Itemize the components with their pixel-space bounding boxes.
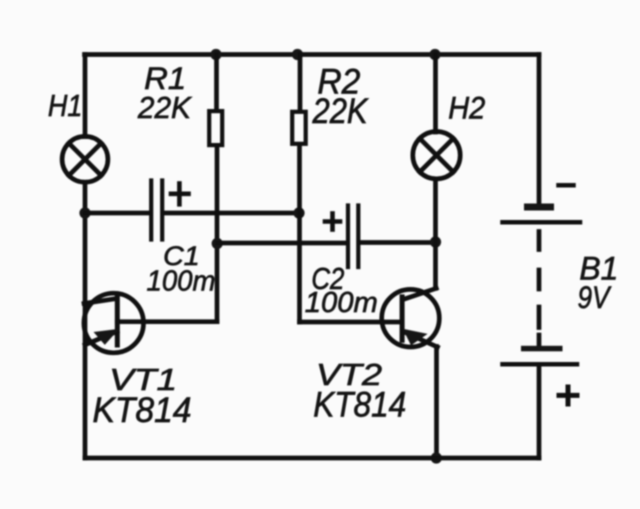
wire C1 right lead to R2 branch: [165, 211, 300, 216]
battery B1 bottom cell positive plate: [503, 362, 578, 367]
wire bottom rail: [85, 456, 539, 461]
battery dashed link: [537, 232, 542, 347]
wire R2 bottom lead down to VT2 base corner: [297, 146, 302, 323]
wire VT1 base lead: [117, 319, 217, 324]
minus sign: [559, 183, 574, 188]
resistor R1: [209, 111, 222, 145]
wire C2 right lead: [361, 240, 436, 245]
svg-text:H2: H2: [448, 89, 485, 125]
wire VT2 emitter rail to bottom: [434, 347, 439, 459]
svg-text:KT814: KT814: [93, 391, 192, 430]
wire battery bottom lead: [537, 366, 542, 458]
lamp H2: [413, 132, 460, 179]
wire R1 top lead: [214, 55, 219, 111]
transistor VT2: [382, 288, 440, 347]
capacitor C2: [348, 206, 358, 268]
lamp H1: [62, 136, 108, 182]
svg-text:22K: 22K: [137, 90, 192, 125]
capacitor C1: [151, 181, 162, 240]
battery B1 top cell negative plate: [524, 204, 554, 211]
transistor VT1: [84, 293, 144, 353]
svg-text:100m: 100m: [147, 265, 216, 297]
node dot top rail R2: [292, 49, 303, 60]
node dot H1/C1: [79, 207, 90, 218]
battery B1 top cell positive plate: [503, 220, 581, 225]
battery B1 bottom cell negative plate: [521, 346, 563, 352]
wire H2 top lead: [433, 55, 438, 133]
plus sign: [559, 387, 577, 404]
wire R1 bottom lead down to VT1 base corner: [215, 147, 220, 322]
svg-text:KT814: KT814: [313, 385, 406, 425]
node dot top rail R1: [210, 49, 221, 60]
wire left rail (H1 to bottom rail): [83, 182, 88, 458]
node dot R1/C2: [212, 238, 223, 249]
svg-text:22K: 22K: [312, 92, 369, 131]
node dot H2/C2: [430, 236, 441, 247]
wire H2 bottom lead to VT2 collector joint: [433, 179, 438, 288]
polarity plus of C2: [325, 214, 340, 230]
polarity plus of C1: [171, 184, 189, 205]
wire VT2 base lead: [300, 320, 403, 325]
node dot bottom rail: [431, 452, 442, 463]
svg-text:100m: 100m: [305, 287, 378, 319]
node dot top rail H2: [429, 49, 440, 60]
wire C1 left lead: [85, 211, 149, 216]
svg-text:H1: H1: [48, 89, 83, 123]
wire R2 top lead: [298, 55, 303, 111]
svg-text:9V: 9V: [578, 279, 612, 315]
wire battery top lead: [537, 55, 542, 205]
wire left rail upper (top rail to H1): [83, 55, 88, 137]
wire top rail: [85, 52, 540, 57]
node dot C1/R2: [293, 207, 304, 218]
wire C2 left lead: [217, 241, 346, 246]
resistor R2: [292, 112, 306, 144]
